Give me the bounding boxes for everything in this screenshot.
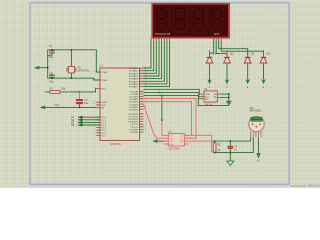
svg-text:XTAL1: XTAL1 — [101, 71, 108, 74]
svg-text:WP: WP — [205, 99, 209, 101]
digit separator — [208, 6, 211, 36]
capacitor C4 — [228, 141, 238, 153]
wire U1 P2.5 diagonal to ADC CLK (selected) — [144, 104, 165, 138]
svg-text:U1: U1 — [100, 64, 104, 68]
wire common1 to Q1 — [210, 40, 214, 55]
svg-text:MSD6264 DP: MSD6264 DP — [155, 33, 171, 36]
wire to left terminal — [39, 67, 48, 69]
wire Q3 emitter down — [247, 64, 249, 79]
svg-text:10k: 10k — [61, 87, 66, 91]
microcontroller U1 AT89C51 — [100, 64, 140, 146]
node junction ground rail b — [228, 97, 230, 99]
transistor Q2 — [224, 50, 234, 89]
U3 left pin stubs — [164, 135, 168, 144]
capacitor C2 — [49, 72, 55, 84]
svg-text:VCC: VCC — [54, 103, 60, 107]
svg-text:GND: GND — [169, 144, 174, 146]
svg-text:U3: U3 — [168, 130, 172, 134]
svg-text:CRYSTAL: CRYSTAL — [78, 69, 90, 73]
svg-text:VIN+: VIN+ — [169, 138, 173, 140]
wire ground rail left — [47, 50, 49, 78]
svg-text:XTAL2: XTAL2 — [101, 79, 108, 82]
wire XTAL2 rail — [48, 78, 100, 80]
wire R1 to RST — [60, 89, 97, 92]
svg-text:P2.2/A10: P2.2/A10 — [129, 96, 139, 99]
svg-text:10u: 10u — [84, 101, 89, 105]
node junction color change — [161, 119, 163, 121]
svg-text:and seconds : PRESSURE: and seconds : PRESSURE — [291, 184, 320, 188]
node junction R2 top — [214, 140, 216, 142]
svg-text:17: 17 — [145, 130, 147, 132]
terminal arrow EA rail — [40, 106, 45, 109]
terminal arrow T3 — [246, 80, 250, 84]
node dots at P1 terminals — [81, 116, 83, 118]
wire red parallel riser to ADC (selected) — [144, 102, 192, 136]
wire U2 right pins to ground rail — [221, 94, 229, 106]
svg-text:ADC0831: ADC0831 — [169, 147, 181, 151]
svg-text:MPX4115: MPX4115 — [250, 109, 262, 113]
ADC U3 ADC0831 (selected, highlighted red) — [164, 130, 188, 151]
wire ADC REF to R2 top (selected) — [189, 140, 215, 142]
capacitor C1 — [48, 44, 55, 59]
wire bus display segments to U1 P0 — [144, 40, 170, 86]
display digit 4 — [212, 7, 227, 30]
svg-text:P0.2/AD2: P0.2/AD2 — [129, 72, 139, 75]
U1 pin numbers — [93, 66, 146, 135]
wire common4 to Q4 — [221, 40, 263, 55]
svg-text:C1: C1 — [49, 44, 53, 48]
svg-text:Q4: Q4 — [267, 52, 271, 56]
wire EA rail long — [45, 106, 97, 108]
U1 right pin stubs — [140, 68, 144, 132]
svg-text:Q2: Q2 — [230, 52, 234, 56]
wire red down to ADC pin1 (selected) — [162, 121, 164, 135]
display segment pins (a-dp) — [151, 38, 170, 40]
node junction C3/EA rail — [79, 107, 81, 109]
wire common2 to Q2 — [216, 40, 227, 55]
wire seg-e to P0.4 — [144, 40, 162, 78]
wire XTAL1 rail — [48, 50, 100, 72]
node junction X1 bottom — [71, 77, 73, 79]
svg-text:R1: R1 — [50, 87, 54, 91]
U3 right pin stubs — [185, 135, 189, 144]
wire sensor pin to +V terminal — [258, 137, 260, 153]
wire U1 P2.4 red to ADC DO (selected) — [144, 98, 197, 138]
terminal arrow T1 — [208, 80, 212, 84]
pressure sensor M1 MPX4115 — [249, 106, 264, 138]
wire U1 P2.0 to U2 SDA — [144, 89, 201, 94]
wire bottom rail R2 to sensor — [215, 137, 254, 152]
transistor Q4 — [260, 50, 270, 89]
digit separator — [189, 6, 192, 36]
capacitor C3 (electrolytic) — [76, 92, 89, 108]
terminal arrow P1.0 — [83, 116, 101, 118]
wire Q4 emitter down — [263, 64, 265, 79]
svg-text:33p: 33p — [49, 80, 54, 84]
wire U2 WP wrap to ground — [144, 96, 229, 106]
node junction R2 bottom — [214, 152, 216, 154]
svg-text:P2.7/A15: P2.7/A15 — [129, 109, 139, 112]
ground symbol near U2 — [226, 101, 231, 106]
terminal arrow T4 — [262, 80, 266, 84]
resistor R2 — [213, 141, 221, 153]
svg-text:P0.0/AD0: P0.0/AD0 — [129, 67, 139, 70]
origin marker (blue dot) — [159, 92, 161, 94]
svg-text:P0.4/AD4: P0.4/AD4 — [129, 78, 139, 81]
svg-text:P1.7: P1.7 — [101, 135, 106, 137]
7-segment display DISP1 (4-digit) — [152, 4, 229, 38]
terminal arrow +V below sensor — [257, 153, 261, 158]
svg-text:19: 19 — [93, 70, 95, 72]
svg-text:C2: C2 — [49, 72, 53, 76]
svg-text:U2: U2 — [204, 87, 208, 91]
node junction C4 bottom — [230, 152, 232, 154]
node junction C1/rail — [51, 49, 53, 51]
digit separator — [171, 6, 174, 36]
display digit 3 — [193, 7, 208, 30]
wire ADC DO to R2 bottom (selected) — [189, 135, 212, 152]
display digit 1 — [157, 7, 172, 30]
svg-text:R2: R2 — [218, 142, 222, 146]
svg-text:AT89C51: AT89C51 — [110, 142, 121, 146]
wire green down to ADC CS — [161, 96, 163, 121]
node junction C4 top — [230, 140, 232, 142]
svg-text:P2.3/A11: P2.3/A11 — [129, 98, 139, 101]
display digit 2 — [175, 7, 190, 30]
svg-text:ALE: ALE — [101, 104, 106, 107]
wires display commons to transistors — [210, 40, 264, 55]
svg-text:33p: 33p — [49, 55, 54, 59]
crystal oscillator section — [35, 44, 101, 84]
wire top rail R2 to sensor — [215, 137, 251, 141]
svg-text:Q1: Q1 — [213, 52, 217, 56]
resistor R1 — [45, 87, 66, 94]
svg-text:1234: 1234 — [214, 33, 220, 36]
terminal arrow P1.3 — [83, 124, 101, 126]
wire seg-c to P0.2 — [144, 40, 157, 73]
transistor Q1 — [206, 50, 216, 89]
terminal arrow P1.2 — [83, 121, 101, 123]
P1 input terminals — [71, 115, 100, 127]
U2 right pin stubs — [217, 94, 220, 97]
svg-text:P2.4/A12: P2.4/A12 — [129, 101, 139, 104]
wire seg-d to P0.3 — [144, 40, 160, 76]
transistor Q3 — [244, 50, 254, 89]
node junction X1 top — [71, 49, 73, 51]
svg-text:P0.7/AD7: P0.7/AD7 — [129, 86, 139, 89]
sensor pin stubs — [251, 131, 261, 137]
node junction ground rail a — [228, 93, 230, 95]
U1 left pin stubs — [96, 72, 100, 135]
svg-text:P2.1/A9: P2.1/A9 — [130, 93, 139, 96]
svg-text:P2.5/A13: P2.5/A13 — [129, 103, 139, 106]
svg-text:P0.1/AD1: P0.1/AD1 — [129, 70, 139, 73]
terminal arrow P1.1 — [83, 119, 101, 121]
sheet border frame — [30, 3, 289, 185]
display digit-common pins 1-4 — [214, 38, 222, 40]
node junction C2/rail — [51, 77, 53, 79]
svg-text:P0.6/AD6: P0.6/AD6 — [129, 83, 139, 86]
svg-text:Q3: Q3 — [251, 52, 255, 56]
svg-text:P2.0/A8: P2.0/A8 — [130, 90, 139, 93]
terminal arrow T2 — [225, 80, 229, 84]
svg-text:P3.7/RD: P3.7/RD — [130, 132, 139, 134]
svg-text:P0.5/AD5: P0.5/AD5 — [129, 80, 139, 83]
ground symbol below C4 — [229, 153, 231, 161]
wire Q2 emitter down — [226, 64, 228, 79]
reset section — [40, 87, 96, 109]
node junction R1/C3 — [79, 91, 81, 93]
wire seg-b to P0.1 — [144, 40, 154, 70]
svg-text:P0.3/AD3: P0.3/AD3 — [129, 75, 139, 78]
terminal arrow ADC VIN- — [158, 140, 165, 142]
wire seg-dp to P0.7 — [144, 40, 170, 86]
terminal arrow left (GND) — [35, 66, 40, 69]
crystal X1 — [67, 50, 90, 78]
IC U2 (serial EEPROM) — [201, 87, 221, 107]
wire seg-f to P0.5 — [144, 40, 165, 81]
node junction on ground rail — [47, 67, 49, 69]
wire seg-a to P0.0 — [144, 40, 152, 68]
wire seg-g to P0.6 — [144, 40, 167, 84]
node junction ADC clock tap — [161, 95, 163, 97]
svg-text:VIN-: VIN- — [169, 141, 173, 143]
U2 left pin stubs — [201, 94, 204, 99]
wire Q1 emitter down — [209, 64, 211, 79]
svg-text:S4: S4 — [71, 123, 75, 127]
wire common3 to Q3 — [219, 40, 248, 55]
svg-text:8: 8 — [94, 134, 95, 136]
U1 pin name texts — [101, 67, 139, 137]
wire U1 P2.1 to U2 SCL — [144, 92, 201, 96]
svg-text:P2.6/A14: P2.6/A14 — [129, 106, 139, 109]
svg-text:RST: RST — [101, 89, 106, 91]
